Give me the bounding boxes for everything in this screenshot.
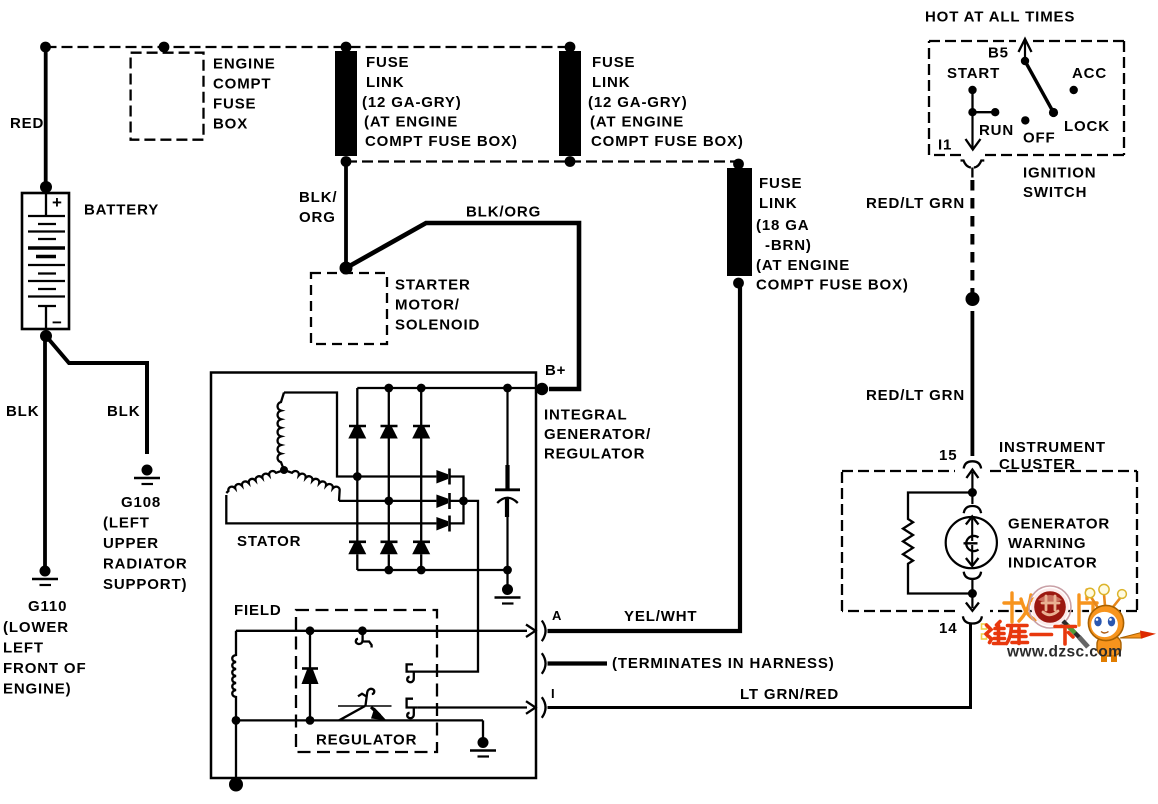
svg-text:GENERATOR: GENERATOR xyxy=(1008,516,1110,533)
node: bottom bus col3 xyxy=(417,566,426,575)
battery xyxy=(22,181,159,342)
wire: diode trio output to regulator xyxy=(409,501,478,672)
switch lever B5-LOCK xyxy=(1025,61,1054,113)
connector: lamp socket bottom xyxy=(964,572,981,590)
svg-text:SOLENOID: SOLENOID xyxy=(395,317,480,334)
zener diode Z1 xyxy=(302,631,319,721)
wire: harness stub xyxy=(548,661,608,665)
transistor Q1 xyxy=(338,689,392,721)
node: starter solenoid stud xyxy=(340,262,353,275)
capacitor C1 xyxy=(495,388,520,570)
regulator (dashed box) xyxy=(296,610,437,752)
node: harness splice xyxy=(966,292,980,306)
svg-text:STATOR: STATOR xyxy=(237,533,301,550)
wire: field bottom rail xyxy=(236,719,483,721)
diode D5 (bottom col2) xyxy=(380,542,398,554)
terminal B5 arrow xyxy=(988,39,1032,62)
diode D2 (top col2) xyxy=(380,426,398,439)
diode D3 (top col3) xyxy=(412,426,430,439)
svg-text:IGNITION: IGNITION xyxy=(1023,165,1096,182)
node: lamp/resistor top junction xyxy=(968,488,977,497)
wire: field to case ground xyxy=(235,720,237,781)
svg-text:YEL/WHT: YEL/WHT xyxy=(624,608,697,625)
node: diode trio output xyxy=(459,497,468,506)
watermark: dzsc.com logo xyxy=(982,584,1157,662)
svg-text:COMPT FUSE BOX): COMPT FUSE BOX) xyxy=(365,133,518,150)
svg-text:INTEGRAL: INTEGRAL xyxy=(544,407,627,424)
ignition switch (dashed box) xyxy=(925,9,1124,202)
wire: hot-at-all-times dashed bus (top) xyxy=(46,46,571,48)
svg-text:+: + xyxy=(52,193,63,212)
svg-text:-BRN): -BRN) xyxy=(765,237,812,254)
field winding L1 xyxy=(232,602,281,720)
wire: stator phase B to rectifier row 3 xyxy=(226,495,436,523)
svg-text:LOCK: LOCK xyxy=(1064,118,1110,135)
ground (capacitor) xyxy=(495,584,521,604)
node: row2-col2 junction xyxy=(384,497,393,506)
wire: diode trio common rail xyxy=(450,477,464,524)
svg-text:RADIATOR: RADIATOR xyxy=(103,556,188,573)
generator/regulator enclosure box xyxy=(211,373,651,779)
instrument cluster (dashed box) xyxy=(842,439,1137,611)
svg-text:G108: G108 xyxy=(121,494,161,511)
svg-text:FUSE: FUSE xyxy=(213,96,256,113)
diode D6 (bottom col3) xyxy=(412,542,430,554)
svg-text:REGULATOR: REGULATOR xyxy=(544,446,645,463)
svg-text:CLUSTER: CLUSTER xyxy=(999,456,1076,473)
svg-text:(LEFT: (LEFT xyxy=(103,515,150,532)
svg-text:FUSE: FUSE xyxy=(759,175,802,192)
connector: cluster pin 14 xyxy=(939,594,982,638)
wire: I drive to pin I xyxy=(417,706,527,708)
node LOCK xyxy=(1049,108,1058,117)
fuse link F2 (12 GA-GRY) xyxy=(559,42,744,167)
svg-text:WARNING: WARNING xyxy=(1008,535,1086,552)
svg-text:(TERMINATES IN HARNESS): (TERMINATES IN HARNESS) xyxy=(612,655,835,672)
svg-text:A: A xyxy=(552,608,562,623)
wire: capacitor bus to ground xyxy=(506,570,508,585)
wire RED/LT GRN (dashed run) xyxy=(970,180,974,294)
pin I connector xyxy=(542,697,546,718)
svg-text:BLK: BLK xyxy=(6,403,39,420)
svg-text:(12 GA-GRY): (12 GA-GRY) xyxy=(588,94,688,111)
svg-text:STARTER: STARTER xyxy=(395,277,471,294)
node: battery feed junction xyxy=(40,42,51,53)
node: engine compt fuse box tap xyxy=(159,42,170,53)
svg-text:GENERATOR/: GENERATOR/ xyxy=(544,426,651,443)
terminal I1 arrow xyxy=(938,112,981,154)
svg-text:www.dzsc.com: www.dzsc.com xyxy=(1006,644,1122,661)
node: top bus col3 xyxy=(417,384,426,393)
node: bottom bus capacitor tap xyxy=(503,566,512,575)
ground G110 xyxy=(3,566,86,698)
node: field bottom junction xyxy=(232,716,241,725)
diode trio D7 (row1) xyxy=(436,469,449,485)
diode trio D9 (row3) xyxy=(436,516,449,532)
svg-text:G110: G110 xyxy=(28,598,67,615)
svg-text:ACC: ACC xyxy=(1072,65,1107,82)
svg-text:BATTERY: BATTERY xyxy=(84,202,159,219)
svg-text:RUN: RUN xyxy=(979,122,1014,139)
internal hook: indicator drive (I) xyxy=(407,699,418,718)
connector: ignition output fork xyxy=(961,161,985,178)
svg-text:(12 GA-GRY): (12 GA-GRY) xyxy=(362,94,462,111)
wire: rectifier positive bus (top) xyxy=(357,387,542,389)
svg-text:BLK: BLK xyxy=(107,403,140,420)
wire: rectifier column 2 xyxy=(388,388,390,570)
svg-text:(AT ENGINE: (AT ENGINE xyxy=(364,114,458,131)
svg-text:UPPER: UPPER xyxy=(103,535,159,552)
svg-text:(AT ENGINE: (AT ENGINE xyxy=(590,114,684,131)
ground (regulator) xyxy=(470,737,496,757)
wire: rectifier negative bus (bottom) xyxy=(357,569,507,571)
svg-text:RED: RED xyxy=(10,115,44,132)
engine compartment fuse box (dashed) xyxy=(131,53,276,140)
node: top bus col2 xyxy=(384,384,393,393)
svg-text:OFF: OFF xyxy=(1023,130,1056,147)
pin A arrowhead xyxy=(526,625,536,638)
wire: dashed bus (lower) xyxy=(346,160,738,162)
svg-text:(LOWER: (LOWER xyxy=(3,619,69,636)
svg-text:INDICATOR: INDICATOR xyxy=(1008,555,1098,572)
svg-text:ENGINE: ENGINE xyxy=(213,56,276,73)
node OFF xyxy=(1021,116,1029,124)
svg-text:MOTOR/: MOTOR/ xyxy=(395,297,460,314)
stator windings xyxy=(226,393,339,551)
svg-text:LEFT: LEFT xyxy=(3,640,44,657)
svg-text:FUSE: FUSE xyxy=(366,54,409,71)
node B5 xyxy=(1021,57,1029,65)
node START xyxy=(968,86,976,94)
wire: START-RUN branch xyxy=(973,90,996,112)
svg-text:SUPPORT): SUPPORT) xyxy=(103,576,187,593)
node: generator case ground xyxy=(229,778,243,792)
svg-text:B5: B5 xyxy=(988,45,1009,62)
node: regulator switch tap xyxy=(358,626,367,635)
wire: stator phase C to rectifier row 2 xyxy=(339,500,436,502)
svg-text:(AT ENGINE: (AT ENGINE xyxy=(756,257,850,274)
svg-text:RED/LT GRN: RED/LT GRN xyxy=(866,387,965,404)
generator warning indicator lamp xyxy=(946,516,1110,572)
svg-text:RED/LT GRN: RED/LT GRN xyxy=(866,195,965,212)
svg-text:COMPT FUSE BOX): COMPT FUSE BOX) xyxy=(756,277,909,294)
svg-text:LINK: LINK xyxy=(592,74,630,91)
wire BLK/ORG: F1 to starter solenoid xyxy=(344,162,348,269)
pin A connector xyxy=(542,621,546,642)
svg-text:REGULATOR: REGULATOR xyxy=(316,732,417,749)
fuse link F1 (12 GA-GRY) xyxy=(335,42,518,167)
svg-text:BOX: BOX xyxy=(213,116,248,133)
node: field top / zener tap xyxy=(306,626,315,635)
svg-text:LT GRN/RED: LT GRN/RED xyxy=(740,686,839,703)
svg-text:I: I xyxy=(551,686,555,701)
svg-text:COMPT: COMPT xyxy=(213,76,271,93)
connector: lamp socket top xyxy=(964,496,981,513)
wire BLK: battery to G110 xyxy=(43,336,47,566)
wire LT GRN/RED: pin I to instrument cluster xyxy=(548,624,971,708)
wire: rectifier column 3 xyxy=(420,388,422,570)
svg-text:FUSE: FUSE xyxy=(592,54,635,71)
svg-text:HOT AT ALL TIMES: HOT AT ALL TIMES xyxy=(925,9,1075,26)
svg-text:LINK: LINK xyxy=(759,195,797,212)
svg-text:14: 14 xyxy=(939,620,957,637)
wire RED/LT GRN (solid run to cluster) xyxy=(971,311,975,456)
node: row1-col1 junction xyxy=(353,472,362,481)
diode D4 (bottom col1) xyxy=(348,542,366,554)
wire BLK: battery to G108 xyxy=(46,336,147,454)
wire BLK/ORG: starter solenoid to generator B+ xyxy=(346,223,579,389)
wire: field top rail xyxy=(236,630,527,632)
node B+ xyxy=(536,383,548,395)
wire RED: bus to battery xyxy=(44,47,48,187)
svg-text:COMPT FUSE BOX): COMPT FUSE BOX) xyxy=(591,133,744,150)
svg-text:BLK/: BLK/ xyxy=(299,189,337,206)
svg-text:SWITCH: SWITCH xyxy=(1023,184,1087,201)
switch contact hook (field control) xyxy=(356,633,372,648)
svg-text:START: START xyxy=(947,65,1000,82)
svg-text:B+: B+ xyxy=(545,362,566,379)
svg-text:15: 15 xyxy=(939,447,957,464)
node: start/run junction xyxy=(968,108,976,116)
svg-text:INSTRUMENT: INSTRUMENT xyxy=(999,439,1106,456)
diode D1 (top col1) xyxy=(348,426,366,439)
starter motor/solenoid (dashed box) xyxy=(311,273,480,344)
svg-text:LINK: LINK xyxy=(366,74,404,91)
svg-text:(18 GA: (18 GA xyxy=(756,217,809,234)
resistor R1 (shunt) xyxy=(903,493,972,594)
node ACC xyxy=(1070,86,1078,94)
ground G108 xyxy=(103,465,188,594)
pin S connector (terminates in harness) xyxy=(542,653,546,674)
node: top bus capacitor tap xyxy=(503,384,512,393)
node RUN xyxy=(991,108,999,116)
svg-text:ENGINE): ENGINE) xyxy=(3,681,71,698)
wire: stator phase A to rectifier row 1 xyxy=(284,393,436,477)
wire YEL/WHT: pin A to fuse link F3 xyxy=(548,283,741,631)
svg-text:BLK/ORG: BLK/ORG xyxy=(466,204,541,221)
wire: emitter rail to regulator ground xyxy=(482,720,484,738)
internal hook: stator tap (to diode trio) xyxy=(407,664,414,682)
wire: rectifier column 1 xyxy=(356,388,358,570)
svg-text:ORG: ORG xyxy=(299,209,336,226)
svg-text:−: − xyxy=(52,313,63,332)
node: zener bottom junction xyxy=(306,716,315,725)
node: lamp/resistor bottom junction xyxy=(968,589,977,598)
fuse link F3 (18 GA-BRN) xyxy=(727,159,909,294)
connector: cluster pin 15 xyxy=(939,447,981,489)
svg-text:FRONT OF: FRONT OF xyxy=(3,660,86,677)
svg-text:FIELD: FIELD xyxy=(234,602,282,619)
pin I arrowhead xyxy=(526,701,536,714)
diode trio D8 (row2) xyxy=(436,493,449,509)
svg-text:I1: I1 xyxy=(938,137,952,154)
node: bottom bus col2 xyxy=(384,566,393,575)
